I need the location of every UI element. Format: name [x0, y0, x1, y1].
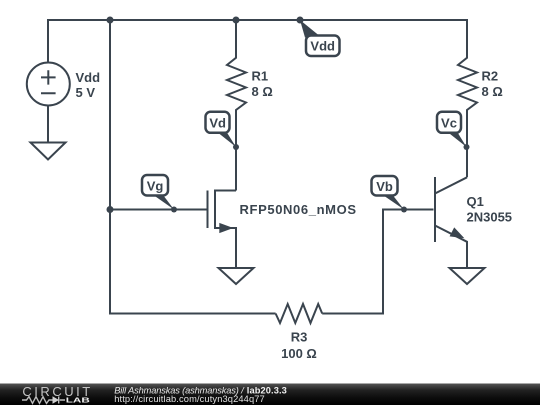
- node junction top R1: [233, 17, 240, 24]
- svg-text:LAB: LAB: [66, 395, 91, 404]
- transistor Q1 2N3055: [435, 177, 467, 268]
- svg-text:R3: R3: [291, 330, 308, 345]
- svg-text:2N3055: 2N3055: [467, 210, 513, 225]
- wire Vdd source bottom lead: [47, 106, 49, 143]
- svg-text:RFP50N06_nMOS: RFP50N06_nMOS: [240, 202, 357, 217]
- flag Vd: [206, 112, 237, 147]
- wire base lead: [382, 209, 434, 211]
- label RFP50N06_nMOS: [240, 202, 357, 217]
- svg-text:R2: R2: [482, 69, 499, 84]
- wire left vertical (gate column): [109, 19, 111, 315]
- svg-text:8 Ω: 8 Ω: [252, 84, 273, 99]
- transistor RFP50N06_nMOS: [208, 191, 237, 269]
- label R1 8 ohm: [252, 69, 273, 100]
- svg-text:Vd: Vd: [209, 115, 226, 130]
- flag Vdd: [300, 20, 340, 56]
- ground under Vdd source: [31, 143, 66, 160]
- wire bottom loop right: [322, 210, 384, 315]
- node Vdd attach dot: [297, 17, 304, 24]
- ground under mosfet: [219, 268, 254, 284]
- wire R1 to mosfet drain: [235, 147, 237, 191]
- flag Vg: [142, 175, 174, 210]
- svg-text:Vdd: Vdd: [310, 39, 335, 54]
- label R3 100 ohm: [281, 330, 317, 362]
- ground under Q1: [450, 268, 485, 284]
- flag Vc: [437, 112, 467, 147]
- svg-text:5 V: 5 V: [76, 85, 96, 100]
- svg-text:Q1: Q1: [467, 194, 484, 209]
- svg-text:Vg: Vg: [147, 179, 164, 194]
- svg-text:Vb: Vb: [376, 179, 393, 194]
- voltage source Vdd: [27, 63, 70, 106]
- svg-text:Vdd: Vdd: [76, 70, 101, 85]
- svg-text:Vc: Vc: [441, 115, 457, 130]
- resistor R2: [458, 19, 477, 177]
- logo LAB: [66, 395, 91, 404]
- resistor R1: [227, 20, 246, 147]
- wire gate lead: [110, 209, 207, 211]
- svg-text:R1: R1: [252, 69, 269, 84]
- footer credit line: [114, 385, 287, 404]
- svg-text:100 Ω: 100 Ω: [281, 346, 317, 361]
- node Vb attach dot: [401, 207, 407, 213]
- node junction gate column: [107, 206, 114, 213]
- node Vg attach dot: [171, 207, 177, 213]
- logo CIRCUIT: [22, 384, 90, 399]
- svg-text:8 Ω: 8 Ω: [482, 84, 503, 99]
- wire top rail: [48, 19, 467, 21]
- label Vdd 5 V: [76, 70, 101, 100]
- svg-text:http://circuitlab.com/cutyn3q2: http://circuitlab.com/cutyn3q244q77: [114, 394, 265, 404]
- wire Vdd source top lead: [47, 19, 49, 63]
- resistor R3: [276, 304, 323, 323]
- node junction top-left: [107, 17, 114, 24]
- footer bar: [0, 384, 540, 405]
- label Q1 2N3055: [467, 194, 513, 225]
- flag Vb: [372, 176, 405, 210]
- node Vc attach dot: [464, 144, 470, 150]
- label R2 8 ohm: [482, 69, 503, 100]
- node Vd attach dot: [233, 144, 239, 150]
- logo resistor squiggle and diode: [22, 396, 65, 403]
- wire bottom loop left: [110, 313, 276, 315]
